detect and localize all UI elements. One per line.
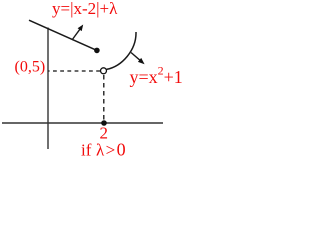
endpoint dot on line	[94, 48, 100, 54]
dashed horizontal from (0,5) to open circle	[49, 70, 101, 72]
arrow to line label	[72, 25, 83, 41]
arrow to curve label	[131, 53, 145, 65]
svg-text:(0,5): (0,5)	[15, 59, 46, 76]
dot on x-axis at x=2	[101, 120, 107, 126]
open circle	[101, 68, 107, 74]
parabola curve y=x^2+1	[106, 32, 136, 69]
svg-text:y=x2+1: y=x2+1	[130, 64, 183, 88]
x-axis	[2, 122, 163, 124]
svg-text:ifλ>0: ifλ>0	[81, 139, 126, 159]
line y=|x-2|+lambda (left branch)	[29, 20, 97, 50]
dashed vertical from circle to x-axis	[103, 75, 105, 122]
svg-text:y=|x-2|+λ: y=|x-2|+λ	[52, 0, 118, 18]
y-axis	[47, 28, 49, 150]
